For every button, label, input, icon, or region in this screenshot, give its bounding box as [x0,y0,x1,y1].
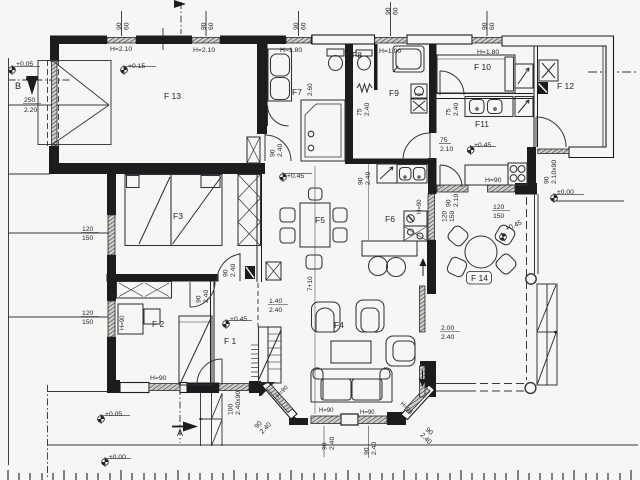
svg-text:2.10: 2.10 [440,146,453,153]
svg-text:100: 100 [228,403,235,415]
svg-text:2.40: 2.40 [230,264,237,277]
svg-text:F 14: F 14 [471,273,488,283]
svg-text:90: 90 [385,7,392,15]
svg-text:+0.45: +0.45 [230,316,247,323]
svg-text:F7: F7 [292,87,302,97]
svg-text:F 10: F 10 [474,62,491,72]
svg-text:F 2: F 2 [152,319,165,329]
svg-text:150: 150 [82,235,94,242]
svg-text:150: 150 [82,319,94,326]
svg-text:75: 75 [440,137,448,144]
svg-text:60: 60 [124,22,131,30]
svg-text:2.40x90: 2.40x90 [235,391,242,415]
svg-text:2.40: 2.40 [364,103,371,116]
svg-text:+0.45: +0.45 [474,142,491,149]
svg-text:90: 90 [364,447,371,455]
svg-text:90: 90 [544,176,551,184]
svg-text:7+10: 7+10 [307,276,314,291]
svg-text:2.40: 2.40 [365,172,372,185]
svg-text:2.40: 2.40 [277,144,284,157]
svg-text:H=90: H=90 [120,315,126,330]
svg-text:H=2.10: H=2.10 [110,46,132,53]
svg-text:F11: F11 [475,119,489,129]
svg-text:2.40: 2.40 [269,307,282,314]
svg-text:2.40: 2.40 [441,334,454,341]
svg-text:2.40: 2.40 [371,442,378,455]
svg-text:2.10x90: 2.10x90 [551,160,558,184]
svg-text:75: 75 [446,108,453,116]
svg-text:90: 90 [270,149,277,157]
svg-text:90: 90 [223,269,230,277]
svg-text:150: 150 [449,210,456,222]
svg-text:2.60: 2.60 [307,83,314,96]
svg-text:90: 90 [116,22,123,30]
svg-text:120: 120 [82,310,94,317]
svg-text:120: 120 [493,204,505,211]
svg-text:90: 90 [482,22,489,30]
svg-text:120: 120 [82,226,94,233]
svg-text:90: 90 [201,22,208,30]
svg-text:H=1.90: H=1.90 [379,48,401,55]
svg-text:2.40: 2.40 [329,437,336,450]
svg-text:150: 150 [493,213,505,220]
svg-text:60: 60 [393,7,400,15]
svg-text:250: 250 [24,97,36,104]
svg-text:1.40: 1.40 [269,298,282,305]
svg-text:90: 90 [196,295,203,303]
svg-text:90: 90 [322,442,329,450]
svg-text:2.20: 2.20 [24,107,37,114]
svg-text:90: 90 [293,22,300,30]
svg-text:F 1: F 1 [224,336,237,346]
svg-text:H=1.80: H=1.80 [280,47,302,54]
svg-text:75: 75 [357,108,364,116]
svg-text:+0.45: +0.45 [287,173,304,180]
svg-text:60: 60 [489,22,496,30]
svg-text:±0.00: ±0.00 [109,454,126,461]
svg-text:60: 60 [208,22,215,30]
svg-text:H=90: H=90 [150,375,167,382]
svg-text:A: A [177,428,183,438]
svg-text:F6: F6 [385,214,395,224]
svg-text:H=90: H=90 [485,177,502,184]
svg-text:F3: F3 [173,211,183,221]
svg-text:F 13: F 13 [164,91,181,101]
svg-text:90: 90 [446,199,453,207]
svg-text:H=2.10: H=2.10 [193,47,215,54]
svg-text:+0.15: +0.15 [128,63,145,70]
svg-text:2.40: 2.40 [203,290,210,303]
svg-text:F5: F5 [315,215,325,225]
svg-text:90: 90 [358,177,365,185]
svg-text:60: 60 [301,22,308,30]
svg-text:F 12: F 12 [557,81,574,91]
svg-text:B: B [15,81,21,91]
svg-text:H=90: H=90 [360,410,375,416]
svg-text:H=1.80: H=1.80 [477,49,499,56]
svg-text:+0.05: +0.05 [16,61,33,68]
svg-text:±0.00: ±0.00 [557,189,574,196]
svg-text:120: 120 [442,210,449,222]
svg-text:+0.05: +0.05 [105,411,122,418]
svg-text:F9: F9 [389,88,399,98]
svg-text:H=90: H=90 [319,408,334,414]
svg-text:2.40: 2.40 [453,103,460,116]
svg-text:F4: F4 [334,320,344,330]
svg-text:F8: F8 [352,50,362,60]
svg-text:H=90: H=90 [417,199,423,214]
svg-text:2.00: 2.00 [441,325,454,332]
svg-text:2.10: 2.10 [453,194,460,207]
